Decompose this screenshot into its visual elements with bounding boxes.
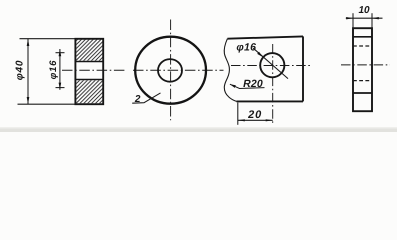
leader of part 2 [132, 93, 160, 103]
bottom scan shadow [0, 129, 397, 133]
extension line 10 left [352, 13, 354, 28]
side view outline [353, 28, 372, 111]
arrow phi16 bottom [59, 83, 62, 90]
leader R20 underline [230, 84, 265, 88]
arrow 20 left [238, 119, 245, 121]
dimension line phi40 [27, 39, 29, 104]
hatching bottom block [76, 80, 102, 103]
hole circle phi16 on plate [260, 53, 284, 77]
svg-text:10: 10 [358, 5, 370, 16]
horizontal centre line plate hole [231, 65, 312, 67]
arrow R20 [230, 84, 236, 88]
plate break line [224, 39, 236, 102]
svg-text:φ16: φ16 [48, 60, 59, 80]
vertical centre line washer [170, 20, 172, 121]
arrow phi40 bottom [27, 97, 30, 104]
leader phi16 plate [253, 48, 288, 79]
dimension phi40 extension line top [20, 38, 76, 40]
extension line 10 right [371, 13, 373, 28]
washer edge top [353, 36, 372, 38]
centre line through circle view [133, 69, 224, 71]
arrow phi40 top [27, 39, 30, 46]
centre line right view [341, 64, 390, 66]
hole top line [75, 61, 103, 63]
hidden hole line top [353, 45, 372, 47]
hatching top block [76, 40, 102, 61]
hidden hole line bottom [353, 80, 372, 82]
outer circle phi40 [135, 37, 206, 104]
svg-text:φ16: φ16 [236, 42, 256, 54]
arrow phi16 plate [257, 52, 263, 57]
svg-text:φ40: φ40 [15, 60, 26, 81]
inner circle phi16 [158, 59, 182, 82]
washer edge bottom [353, 92, 372, 94]
extension tick phi16 top [56, 52, 65, 54]
centre line left view + circle view [62, 69, 125, 71]
arrow 20 right [266, 119, 273, 121]
dimension 20 extension left [237, 103, 239, 125]
plate bottom edge [237, 100, 304, 102]
dimension line phi16 [59, 49, 61, 90]
plate top edge [227, 36, 303, 38]
plate right edge [302, 36, 304, 101]
dimension phi40 extension line bottom [18, 103, 76, 105]
extension tick phi16 bottom [56, 87, 65, 89]
washer section outline [75, 39, 103, 104]
svg-text:20: 20 [247, 109, 262, 121]
dimension line 20 [238, 119, 273, 121]
arrow phi16 top [59, 49, 62, 56]
dimension line 10 [346, 17, 383, 19]
hole bottom line [75, 79, 103, 81]
vertical centre line plate hole [272, 44, 274, 126]
arrow 10 left [346, 17, 353, 19]
svg-text:2: 2 [134, 94, 141, 105]
arrow 10 right [372, 17, 379, 19]
